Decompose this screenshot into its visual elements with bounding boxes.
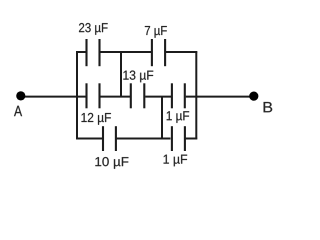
capacitor C4 13 uF plates	[130, 83, 132, 108]
value label 10 uF	[95, 157, 128, 169]
capacitor C6 10 uF plates	[102, 126, 104, 151]
wire 10uF to bottom 1uF	[116, 138, 170, 140]
capacitor C7 bottom 1 uF plates	[171, 126, 173, 151]
wire A to 12uF left plate	[21, 96, 86, 98]
value label bottom 1 uF	[164, 155, 188, 167]
wire right rail	[195, 51, 197, 139]
wire junction top branch to middle node	[120, 52, 122, 97]
wire mid 1uF right plate to node B	[186, 96, 254, 98]
label node B	[264, 102, 273, 112]
wire top branch left rail to 23uF	[76, 51, 86, 53]
node B terminal dot	[249, 92, 258, 101]
value label 13 uF	[123, 71, 153, 83]
wire junction middle node to bottom branch	[161, 97, 163, 139]
wire 13uF right plate to mid 1uF left plate	[145, 96, 171, 98]
capacitor C5 middle 1 uF plates	[171, 83, 173, 108]
label node A	[14, 106, 22, 116]
wire 23uF to 7uF top branch	[100, 51, 151, 53]
wire bottom branch left rail to 10uF	[76, 138, 102, 140]
value label 23 uF	[79, 23, 108, 35]
wire 12uF right plate to 13uF left plate	[100, 96, 130, 98]
wire 7uF to right rail top branch	[166, 51, 197, 53]
capacitor C3 12 uF plates	[85, 83, 87, 108]
capacitor C1 23 uF plates	[85, 39, 87, 66]
value label 7 uF	[145, 26, 167, 38]
node A terminal dot	[16, 91, 25, 100]
value label 12 uF	[82, 113, 111, 125]
capacitor C2 7 uF plates	[151, 39, 153, 66]
wire left rail	[76, 51, 78, 139]
wire bottom 1uF to right rail	[185, 138, 197, 140]
value label middle 1 uF	[167, 111, 189, 123]
